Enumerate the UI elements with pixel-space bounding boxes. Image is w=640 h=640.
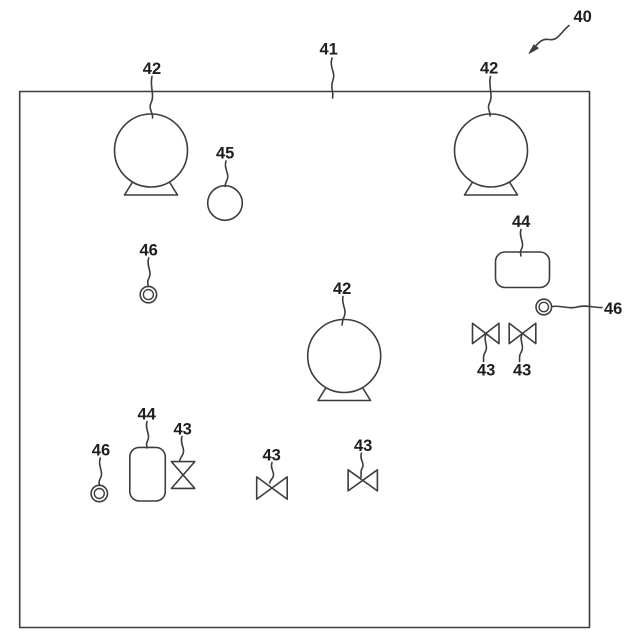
svg-text:46: 46: [604, 300, 622, 318]
ring 46 bottom-left: [91, 485, 107, 501]
valve 43 right pair first: [473, 323, 500, 343]
svg-text:42: 42: [480, 60, 498, 78]
svg-text:43: 43: [477, 362, 495, 380]
valve 43 bowtie bottom-center-right: [348, 470, 377, 491]
svg-text:42: 42: [143, 60, 161, 78]
pump 42 middle: [308, 320, 381, 401]
leader for 43 bottom-center-right: [361, 453, 363, 478]
leader for 46 bottom-left: [99, 458, 102, 485]
pump 42 top-left: [115, 114, 188, 195]
label 43 right pair second: [513, 362, 531, 380]
label 43 hourglass: [174, 421, 192, 439]
leader for 41: [331, 58, 334, 98]
svg-text:46: 46: [140, 242, 158, 260]
label 42 top-right: [480, 60, 498, 78]
label 41: [320, 41, 338, 59]
label 42 middle: [333, 280, 351, 298]
leader for 42 middle: [342, 297, 345, 326]
leader for 46 right: [552, 306, 602, 308]
leader for 42 top-left: [150, 77, 153, 119]
substrate outline 41: [20, 92, 590, 628]
pump 42 top-right: [455, 114, 528, 195]
svg-text:43: 43: [354, 437, 372, 455]
svg-text:44: 44: [512, 213, 531, 231]
label 40: [574, 8, 592, 26]
valve 43 right pair second: [509, 323, 536, 343]
label 44 right: [512, 213, 531, 231]
valve 43 bowtie bottom-center-left: [257, 477, 288, 499]
label 46 top-left: [140, 242, 158, 260]
leader for 43 bottom-center-left: [270, 463, 274, 484]
leader for 43 hourglass: [180, 437, 184, 462]
label 46 right: [604, 300, 622, 318]
ring 46 top-left: [140, 286, 156, 302]
leader for 44 right: [520, 230, 522, 257]
label 43 bottom-center-right: [354, 437, 372, 455]
leader for 45: [225, 161, 228, 187]
leader for 42 top-right: [488, 77, 491, 117]
svg-text:43: 43: [174, 421, 192, 439]
svg-text:46: 46: [92, 442, 110, 460]
label 44 bottom-left: [138, 406, 157, 424]
svg-text:41: 41: [320, 41, 338, 59]
valve 43 hourglass (bottom-left): [171, 462, 194, 489]
label 45: [216, 145, 234, 163]
label 43 bottom-center-left: [263, 447, 281, 465]
ring 46 right: [536, 299, 552, 315]
svg-text:43: 43: [513, 362, 531, 380]
leader for 43 right pair first: [484, 335, 487, 362]
label 43 right pair first: [477, 362, 495, 380]
label 46 bottom-left: [92, 442, 110, 460]
leader for 46 top-left: [148, 258, 150, 286]
leader for 43 right pair second: [520, 335, 523, 362]
arrow leader to 40: [529, 26, 569, 54]
svg-text:40: 40: [574, 8, 592, 26]
leader for 44 bottom-left: [146, 422, 148, 449]
small circle 45: [208, 186, 243, 221]
tank 44 right: [496, 252, 550, 288]
label 42 top-left: [143, 60, 161, 78]
tank 44 bottom-left: [130, 447, 166, 501]
svg-text:45: 45: [216, 145, 234, 163]
svg-text:42: 42: [333, 280, 351, 298]
